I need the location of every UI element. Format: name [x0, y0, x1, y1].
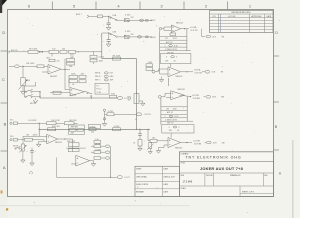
ground G3 — [22, 86, 24, 92]
svg-text:ANT 1/2: ANT 1/2 — [166, 41, 173, 44]
svg-text:4.7/63: 4.7/63 — [114, 126, 120, 128]
svg-text:DATE: DATE — [266, 15, 271, 18]
wire bus stub row2 — [102, 32, 109, 34]
wire U1 output — [61, 68, 70, 70]
connector CN3 — [105, 145, 109, 147]
network box inner resistor a — [70, 129, 77, 132]
op-amp U4 L4558 — [76, 155, 90, 166]
feedback ladder2 rung 3 — [161, 113, 187, 115]
approvals table column divider — [162, 166, 164, 196]
approvals row rule 1 — [135, 173, 180, 175]
svg-text:4.7/63: 4.7/63 — [125, 15, 130, 17]
connector row1 right — [145, 19, 148, 21]
jumper oval row1 — [140, 19, 144, 21]
zone tick top 6/5 — [51, 2, 53, 10]
scan artifact top-left corner — [0, 0, 7, 8]
wire node down — [104, 111, 106, 122]
wire block R3 right rail — [186, 97, 188, 122]
svg-text:L: L — [171, 31, 172, 33]
svg-text:TITLE: TITLE — [181, 163, 185, 165]
wire branch x140 — [139, 129, 141, 134]
svg-text:100K: 100K — [71, 74, 76, 76]
mute switch right bar — [39, 92, 41, 98]
svg-text:100K: 100K — [99, 60, 104, 62]
wire main row 58 horizontal — [102, 58, 137, 60]
svg-text:470: 470 — [57, 60, 60, 62]
wire U8 plus input — [164, 144, 168, 146]
svg-text:-OUT/B: -OUT/B — [193, 140, 200, 142]
connector XLR A — [206, 35, 211, 38]
ground G5 — [104, 122, 106, 124]
op-amp U5 NE5534 — [171, 25, 180, 32]
feedback ladder2 rung 1 — [161, 106, 187, 108]
input network R2 capacitor — [146, 64, 153, 67]
ground G12 — [139, 146, 141, 148]
wire U3 out riser — [65, 139, 73, 152]
input connector J5 — [10, 139, 12, 141]
component box row2 — [124, 35, 129, 38]
feedback top box small — [170, 33, 176, 35]
svg-text:LIN 1/2W: LIN 1/2W — [28, 120, 36, 122]
svg-text:17.5 M-B: 17.5 M-B — [183, 181, 193, 184]
pencil mark bottom left — [29, 171, 32, 174]
svg-text:L4558: L4558 — [71, 94, 77, 96]
wire stub row2 — [91, 151, 94, 153]
op-amp U7 NE5532 — [171, 91, 185, 100]
zone tick top 5/4 — [95, 2, 97, 10]
polarity marks strip1 — [39, 51, 41, 53]
svg-text:NE5534: NE5534 — [176, 22, 183, 24]
ground G1 — [106, 27, 111, 30]
node circle B — [103, 118, 105, 120]
svg-text:JOKER AUX OUT 7+8: JOKER AUX OUT 7+8 — [200, 166, 244, 171]
svg-text:7M: 7M — [222, 36, 225, 38]
wire U7 output — [180, 95, 191, 96]
wire R19a to R19b — [56, 122, 64, 124]
zone tick right C/B — [274, 101, 280, 103]
svg-text:APPROVED: APPROVED — [252, 15, 263, 18]
svg-text:XLR 8M: XLR 8M — [193, 98, 201, 100]
trim pot P3 — [149, 143, 152, 149]
mute switch SW2a — [25, 91, 26, 92]
svg-text:8M: 8M — [221, 97, 224, 99]
junction dot mute b — [39, 96, 40, 97]
wire U8 output — [181, 142, 193, 144]
wire U3 minus input — [23, 135, 47, 137]
speckle noise — [99, 34, 102, 37]
wire J1 to connector box — [90, 15, 98, 17]
feedback resistor row U1 JMP — [67, 59, 75, 62]
cap C6 stack right — [90, 55, 97, 58]
svg-text:4.7/63: 4.7/63 — [125, 31, 130, 33]
input node block R2 — [152, 70, 155, 73]
junction dot mute a — [39, 91, 40, 92]
wire into opamp U2 — [50, 92, 70, 94]
svg-text:+OUT/A: +OUT/A — [190, 26, 198, 29]
title block sheet cell divider — [239, 186, 241, 197]
svg-text:ANT 42: ANT 42 — [167, 111, 173, 114]
svg-text:K1: K1 — [97, 85, 99, 87]
wire J4 to junction — [18, 122, 47, 124]
off-page arrow down MUTE — [35, 98, 37, 100]
resistor R7 — [60, 50, 67, 53]
feedback rung U4 — [66, 147, 86, 149]
svg-text:J OUT: J OUT — [124, 177, 130, 179]
wire block R3 left rail — [160, 98, 162, 125]
svg-text:NE5532: NE5532 — [178, 89, 186, 91]
input stub R2 — [155, 71, 159, 73]
svg-text:-OUT/A: -OUT/A — [194, 68, 201, 71]
component box row1 — [124, 19, 129, 22]
input tick J2 — [8, 50, 10, 53]
junction dot J4 branch — [39, 123, 40, 124]
scan artifact orange speck left — [1, 191, 3, 194]
svg-text:NE5532: NE5532 — [176, 76, 183, 78]
svg-text:R8 100K: R8 100K — [113, 55, 121, 57]
svg-text:XLR 7M: XLR 7M — [191, 30, 198, 32]
wire J3 to R9 — [19, 65, 37, 67]
wire row1 switched — [117, 19, 152, 21]
svg-text:4.7/63: 4.7/63 — [108, 111, 114, 113]
wire U4 output stub — [90, 160, 94, 162]
network box block strip2 — [69, 125, 85, 134]
svg-text:10K/1: 10K/1 — [33, 134, 38, 136]
svg-text:REF C: REF C — [95, 80, 101, 82]
connector row2 right — [145, 36, 148, 38]
svg-text:8M: 8M — [222, 142, 225, 144]
junction dot U8 out — [186, 142, 187, 143]
svg-text:L4558: L4558 — [71, 164, 76, 166]
connector XLR D — [207, 141, 212, 144]
connector XLR C — [206, 96, 211, 99]
junction dot U3 out — [64, 138, 65, 139]
op-amp U1 NE5532A — [48, 65, 61, 75]
wire J5 to R23 — [18, 139, 25, 141]
junction dot U5 out — [184, 28, 185, 29]
junction dot row2 — [108, 32, 109, 33]
revision table column divider LTR — [218, 14, 220, 33]
svg-text:100K 4N7: 100K 4N7 — [52, 126, 60, 128]
res R15 stack right — [90, 59, 97, 62]
feedback row 2 capacitor C5 — [79, 80, 86, 83]
resistor R19b — [64, 122, 74, 125]
wire R19b right — [74, 122, 78, 124]
svg-text:D: D — [275, 31, 278, 35]
svg-text:DSGN CONTRL: DSGN CONTRL — [136, 184, 148, 186]
wire block R3 entry — [167, 78, 169, 86]
wires into U6 — [159, 68, 169, 70]
ground G6 under U3 plus input — [39, 140, 44, 142]
left margin tint — [0, 0, 8, 218]
op-amp U3 NE5532 — [47, 134, 58, 144]
connector CN5 — [105, 157, 109, 159]
wire C7 to connector — [114, 113, 136, 115]
capacitor C2 polarized — [108, 33, 110, 40]
capacitor C7 on wire 114 — [105, 113, 108, 115]
svg-text:RV1: RV1 — [128, 97, 132, 99]
wire block R1 right rail — [186, 29, 188, 51]
title block fscm cell divider — [204, 173, 206, 186]
svg-text:AUX IN: AUX IN — [11, 49, 18, 52]
approvals row rule 2 — [135, 180, 180, 182]
feedback2 lower box — [162, 125, 194, 133]
junction dot U6 out — [186, 71, 187, 72]
svg-text:NE5532: NE5532 — [175, 147, 183, 149]
junction U2 to wire98 — [91, 97, 92, 98]
junction row129 bus — [136, 129, 137, 130]
scan artifact orange speck bottom — [6, 208, 8, 210]
svg-text:4.7/63: 4.7/63 — [99, 57, 104, 59]
wire U8 to XLR — [205, 142, 207, 144]
ground G13 — [149, 149, 151, 152]
ground G2 — [106, 44, 111, 47]
junction dot U7 out — [190, 96, 191, 97]
wire R24 to U8 — [157, 140, 168, 142]
wire bottom out — [57, 158, 118, 178]
wire J4 branch down — [38, 123, 40, 136]
resistor R18 on row129 — [113, 128, 121, 131]
svg-text:IN D: IN D — [10, 136, 14, 138]
connector CN4 — [105, 151, 109, 153]
resistor R16 on row98 — [110, 95, 117, 98]
approvals row rule 3 — [135, 188, 180, 190]
ground G8 — [31, 155, 33, 164]
svg-text:TNT ELEKTRONIK OHG: TNT ELEKTRONIK OHG — [185, 156, 241, 160]
title block bottom row rule — [180, 185, 274, 187]
svg-text:A: A — [3, 165, 6, 170]
svg-text:FSCM NO: FSCM NO — [206, 175, 214, 177]
svg-text:AUX 7: AUX 7 — [76, 13, 83, 16]
feedback resistor R10 — [67, 62, 75, 65]
zone tick top 4/3 — [139, 2, 141, 10]
svg-text:RELEASE: RELEASE — [136, 191, 145, 194]
zone tick left B/A — [1, 150, 8, 152]
feedback lower box R1 — [160, 54, 191, 64]
revision table box — [210, 11, 274, 33]
wire into U5 — [164, 26, 171, 28]
wire vertical bus x=136.5 — [136, 59, 138, 130]
svg-text:RB 1206: RB 1206 — [69, 120, 76, 122]
revision table column divider APPROVED/DATE — [264, 14, 266, 33]
svg-text:DM 10UF: DM 10UF — [26, 63, 35, 65]
capacitor C9 — [138, 133, 142, 135]
resistor row3 to connector CN5 — [94, 157, 101, 160]
feedback ladder2 rung 2 — [161, 110, 187, 112]
stack right vertical wire — [93, 58, 95, 59]
approvals table outline — [135, 166, 180, 196]
title block title row rule — [180, 172, 274, 174]
wire U3 output — [58, 138, 65, 140]
resistor R23 — [24, 138, 32, 141]
wire U6 output — [181, 71, 194, 73]
ground G4 branch — [139, 100, 143, 102]
svg-text:+OUT/B: +OUT/B — [192, 95, 200, 97]
connector CN1 — [117, 97, 122, 100]
jumper oval row2 — [138, 36, 142, 38]
svg-text:SIZE: SIZE — [181, 175, 185, 177]
node circle A — [103, 109, 105, 111]
wire R5 to marks — [38, 51, 49, 53]
svg-text:1W: 1W — [128, 100, 131, 102]
wire U2 vertical from U1 — [64, 69, 66, 89]
wire row130 to R4 input — [148, 129, 150, 141]
svg-text:AUX8: AUX8 — [151, 36, 156, 39]
resistor R17 on row129 — [89, 128, 96, 131]
input node block R1 — [159, 27, 162, 30]
svg-text:100: 100 — [166, 109, 169, 111]
ground G7 — [22, 151, 24, 160]
svg-text:NE5532: NE5532 — [55, 142, 62, 144]
revision table column divider blue — [220, 14, 222, 33]
resistor R6 — [49, 50, 59, 53]
svg-text:XLR: XLR — [212, 97, 216, 99]
feedback ladder2 rung 4 — [161, 117, 187, 119]
title block rev cell divider — [262, 173, 264, 186]
feedback ladder rung 2 — [160, 39, 187, 41]
revision table column divider ECO/APPROVED — [249, 14, 251, 33]
resistor R25 vertical — [138, 140, 142, 147]
op-amp U6 NE5532 — [168, 67, 181, 77]
zone tick top 2/1 — [227, 2, 229, 10]
title block company row rule — [180, 160, 274, 162]
wire output row 98 — [40, 97, 117, 99]
svg-text:XLR: XLR — [212, 71, 216, 73]
resistor R5 — [28, 50, 38, 53]
wire bus top section — [101, 33, 103, 59]
feedback ladder2 rung 5 — [161, 120, 193, 122]
branch down at 52 — [51, 53, 53, 56]
wire U7 to XLR — [204, 96, 206, 98]
zone tick top 3/2 — [183, 2, 185, 10]
scan artifact paper edge shadows — [292, 140, 294, 218]
op-amp U8 NE5532 — [168, 138, 181, 148]
mute switch SW3 — [15, 148, 16, 149]
junction dot feedback rail — [39, 129, 40, 130]
feedback vertical L1 — [68, 78, 70, 87]
network box inner resistor b — [77, 129, 84, 132]
connector CN2 — [136, 113, 141, 116]
wire stub row1 — [91, 145, 94, 147]
ground G10 U6 — [161, 77, 163, 80]
svg-text:REF A: REF A — [95, 72, 101, 75]
trim pot P2 — [22, 136, 24, 144]
trim pot arrow P1 — [19, 80, 28, 90]
resistor R8 on row58 — [113, 57, 121, 60]
feedback resistor R20 — [48, 128, 56, 131]
input connector J3 — [9, 65, 15, 67]
svg-text:JMP A/B: JMP A/B — [167, 51, 175, 54]
wire mute riser — [25, 82, 36, 97]
svg-text:221: 221 — [165, 38, 168, 40]
svg-text:DATE 14.10.97: DATE 14.10.97 — [164, 176, 175, 179]
input arrow J1 — [87, 15, 89, 18]
input connector J4 — [10, 122, 12, 124]
svg-text:V GN: V GN — [97, 92, 102, 94]
svg-text:XLR: XLR — [212, 36, 216, 38]
feedback ladder rung 1 — [160, 36, 187, 38]
svg-text:CHKD W.RAU: CHKD W.RAU — [136, 176, 148, 179]
switch on U2 output — [85, 91, 88, 93]
op-amp U2 L4558 — [70, 88, 85, 97]
feedback ladder rung 3 — [160, 43, 187, 45]
wire rail right of rows — [110, 146, 112, 177]
wire row129 horizontal — [39, 128, 150, 130]
ground G11 U8 — [158, 148, 160, 151]
svg-text:JMP 1/2: JMP 1/2 — [167, 123, 174, 125]
input stub R3 — [161, 96, 165, 98]
svg-text:B: B — [4, 122, 7, 127]
resistor R30 below — [49, 59, 55, 62]
zone tick left D/C — [1, 50, 8, 52]
feedback stub to U6 — [170, 64, 172, 67]
svg-text:GND: GND — [110, 76, 115, 78]
svg-text:J OUT B: J OUT B — [144, 114, 152, 116]
relay box K1 — [95, 83, 109, 94]
wires into U7 — [165, 92, 171, 94]
svg-text:XLR 7M: XLR 7M — [195, 73, 203, 75]
input network R2 resistor — [146, 68, 153, 71]
revision table header rule 2 — [210, 17, 274, 19]
svg-text:AUX7: AUX7 — [151, 19, 156, 22]
svg-text:C: C — [2, 77, 5, 82]
wire block R1 left rail — [159, 30, 161, 63]
resistor R24 into U8 — [150, 139, 157, 142]
connector XLR B — [205, 71, 210, 74]
mute switch SW2b — [25, 96, 26, 97]
junction rail bottom — [110, 177, 111, 178]
wire J2 to R5 — [9, 51, 28, 53]
wire C3 to bus — [76, 51, 102, 53]
capacitor C8 vertical — [31, 148, 33, 151]
feedback2 stub to U8 — [170, 133, 172, 138]
capacitor C1 polarized — [108, 16, 110, 23]
svg-text:1K21: 1K21 — [173, 38, 177, 40]
input node block R3 — [158, 95, 161, 98]
wire U6 to XLR oval — [202, 71, 205, 73]
zone tick right D/C — [274, 55, 280, 57]
junction dot U1 out — [64, 69, 65, 70]
svg-text:MUTE: MUTE — [13, 145, 19, 147]
title block outline — [180, 152, 274, 197]
title block sheet sub rule — [240, 193, 274, 195]
connector box CB1 — [98, 15, 103, 18]
wire row2 switched — [117, 36, 152, 38]
feedback resistor R12 — [69, 75, 78, 78]
svg-text:NE5532: NE5532 — [50, 76, 58, 78]
junction dot row1 — [108, 16, 109, 17]
zone tick left C/B — [1, 102, 8, 104]
connector CN6 OUT — [117, 176, 122, 179]
feedback row 2 resistor R13 — [69, 80, 78, 83]
svg-text:REF B: REF B — [95, 76, 101, 78]
resistor R14 on U2 input — [53, 91, 61, 94]
svg-text:SHEET 1 OF 2: SHEET 1 OF 2 — [242, 192, 254, 194]
zener box D1 on bus — [134, 94, 139, 104]
wire U5 out bend to XLR — [202, 29, 205, 37]
resistor R19a — [46, 122, 56, 125]
wire R23 to U3 — [32, 140, 46, 142]
wire inverting input U1 — [42, 71, 48, 73]
feedback ladder rung 4 — [160, 46, 187, 48]
junction dot strip1 — [78, 51, 79, 52]
wire R9 to opamp U1 — [44, 65, 48, 67]
zone tick right B/A — [274, 149, 280, 151]
svg-text:7: 7 — [156, 26, 157, 28]
feedback box U4 lower — [68, 149, 79, 152]
boxes right of row129 — [89, 124, 101, 128]
feedback ladder rung 5 — [160, 50, 191, 52]
feedback vertical U1 — [64, 59, 66, 70]
